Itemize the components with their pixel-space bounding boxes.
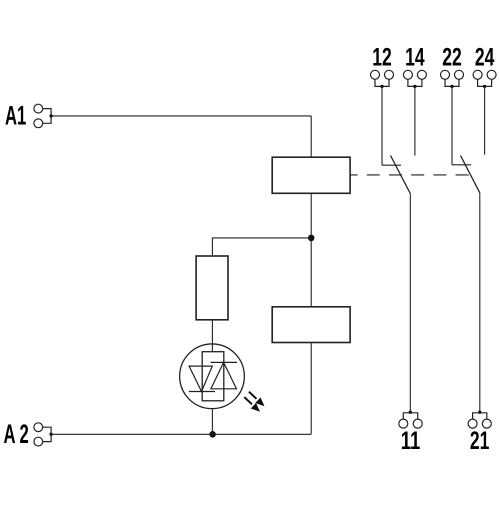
- junction dot at A2: [49, 433, 52, 436]
- terminal 22: [441, 70, 464, 86]
- LED inner resistor rectangle: [202, 352, 224, 401]
- terminal 11: [399, 413, 422, 428]
- svg-text:22: 22: [442, 44, 462, 72]
- wire rect2 bottom to A2 rail corner: [310, 343, 312, 435]
- wire 14 to NO contact: [414, 86, 416, 155]
- wire coil bottom to node: [310, 193, 312, 306]
- junction dot terminal 21: [478, 411, 481, 414]
- junction dot at A1: [49, 114, 52, 117]
- svg-text:12: 12: [372, 44, 392, 72]
- LED right diode cathode bar: [211, 361, 238, 363]
- contact 1 lever: [391, 156, 411, 194]
- terminal 12: [371, 70, 394, 86]
- terminal 21: [468, 413, 491, 428]
- wire lever 2 to terminal 21: [479, 193, 481, 413]
- svg-text:A1: A1: [5, 101, 26, 131]
- NC contact 1 fixed end: [382, 164, 401, 166]
- junction dot on A2 rail: [209, 431, 216, 438]
- junction dot terminal 11: [409, 411, 412, 414]
- wire A2 rail (horizontal): [51, 433, 311, 435]
- LED right diode (up): [211, 362, 237, 388]
- wire 12 to NC contact: [381, 86, 383, 165]
- terminal A2: [34, 423, 51, 446]
- LED indicator circle: [180, 344, 245, 409]
- junction dot terminal 22: [450, 85, 453, 88]
- wire 22 to NC contact: [451, 86, 453, 164]
- junction dot terminal 24: [483, 85, 486, 88]
- terminal 14: [403, 70, 426, 86]
- wire lever 1 to terminal 11: [409, 194, 411, 413]
- free-wheeling element (rectangle): [272, 307, 350, 343]
- wire A1 to coil (horizontal): [51, 115, 311, 117]
- LED left diode (down): [189, 366, 212, 391]
- svg-text:14: 14: [405, 44, 425, 72]
- wire LED bottom to A2 rail: [211, 409, 213, 435]
- wire node to resistor branch: [212, 238, 311, 256]
- junction dot (coil/resistor node): [308, 235, 315, 242]
- contact 2 lever: [461, 156, 480, 193]
- resistor R (rectangle): [196, 256, 228, 320]
- relay coil (rectangle): [272, 157, 350, 193]
- mechanical link (dashed) from coil to contacts: [350, 174, 470, 176]
- LED left diode cathode bar: [189, 391, 215, 393]
- NC contact 2 fixed end: [452, 164, 471, 166]
- junction dot terminal 14: [413, 85, 416, 88]
- svg-text:21: 21: [470, 427, 490, 455]
- svg-text:11: 11: [401, 427, 421, 455]
- junction dot terminal 12: [380, 85, 383, 88]
- LED light arrow 1: [249, 392, 265, 407]
- LED light arrow 2: [244, 397, 260, 412]
- wire 24 to NO contact: [484, 86, 486, 154]
- svg-text:24: 24: [475, 44, 495, 72]
- terminal A1: [34, 104, 51, 128]
- wire resistor to LED: [211, 320, 213, 352]
- svg-text:A 2: A 2: [4, 419, 29, 449]
- wire down into coil top: [310, 116, 312, 157]
- terminal 24: [473, 70, 496, 86]
